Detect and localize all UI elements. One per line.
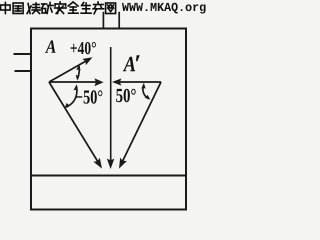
label A prime [123,57,135,71]
left figure: -50 line down to floor [49,82,102,169]
right figure: arc for 50 degrees [141,83,150,100]
floor line [30,175,187,177]
right figure: diagonal line down to floor [119,82,161,169]
label +40 degrees [71,42,96,54]
main box [31,29,186,210]
left figure: arc between +40 and horizontal [76,64,81,81]
watermark CJK text 中国煤矿安全生产网 [1,2,116,14]
全 [68,2,78,13]
left figure: horizontal arrow [49,78,104,86]
label A prime mark [136,55,140,61]
left figure: +40 arrow [49,57,93,82]
label 50 degrees [116,89,136,103]
chimney left line [102,12,104,28]
label -50 degrees [76,90,103,103]
产 [93,2,104,14]
watermark latin text WWW.MKAQ.org [122,3,206,14]
煤 [27,3,40,14]
矿 [42,3,54,14]
中 [1,3,11,14]
center vertical arrow [107,47,115,169]
网 [106,3,116,14]
生 [81,3,91,14]
label A [45,40,56,52]
left tick upper [14,53,31,55]
chimney right line [118,12,120,28]
right figure: horizontal arrow pointing left [112,78,161,85]
left tick lower [15,70,31,72]
国 [13,3,23,14]
left figure: arc between horizontal and -50 [65,84,78,108]
安 [55,2,67,14]
